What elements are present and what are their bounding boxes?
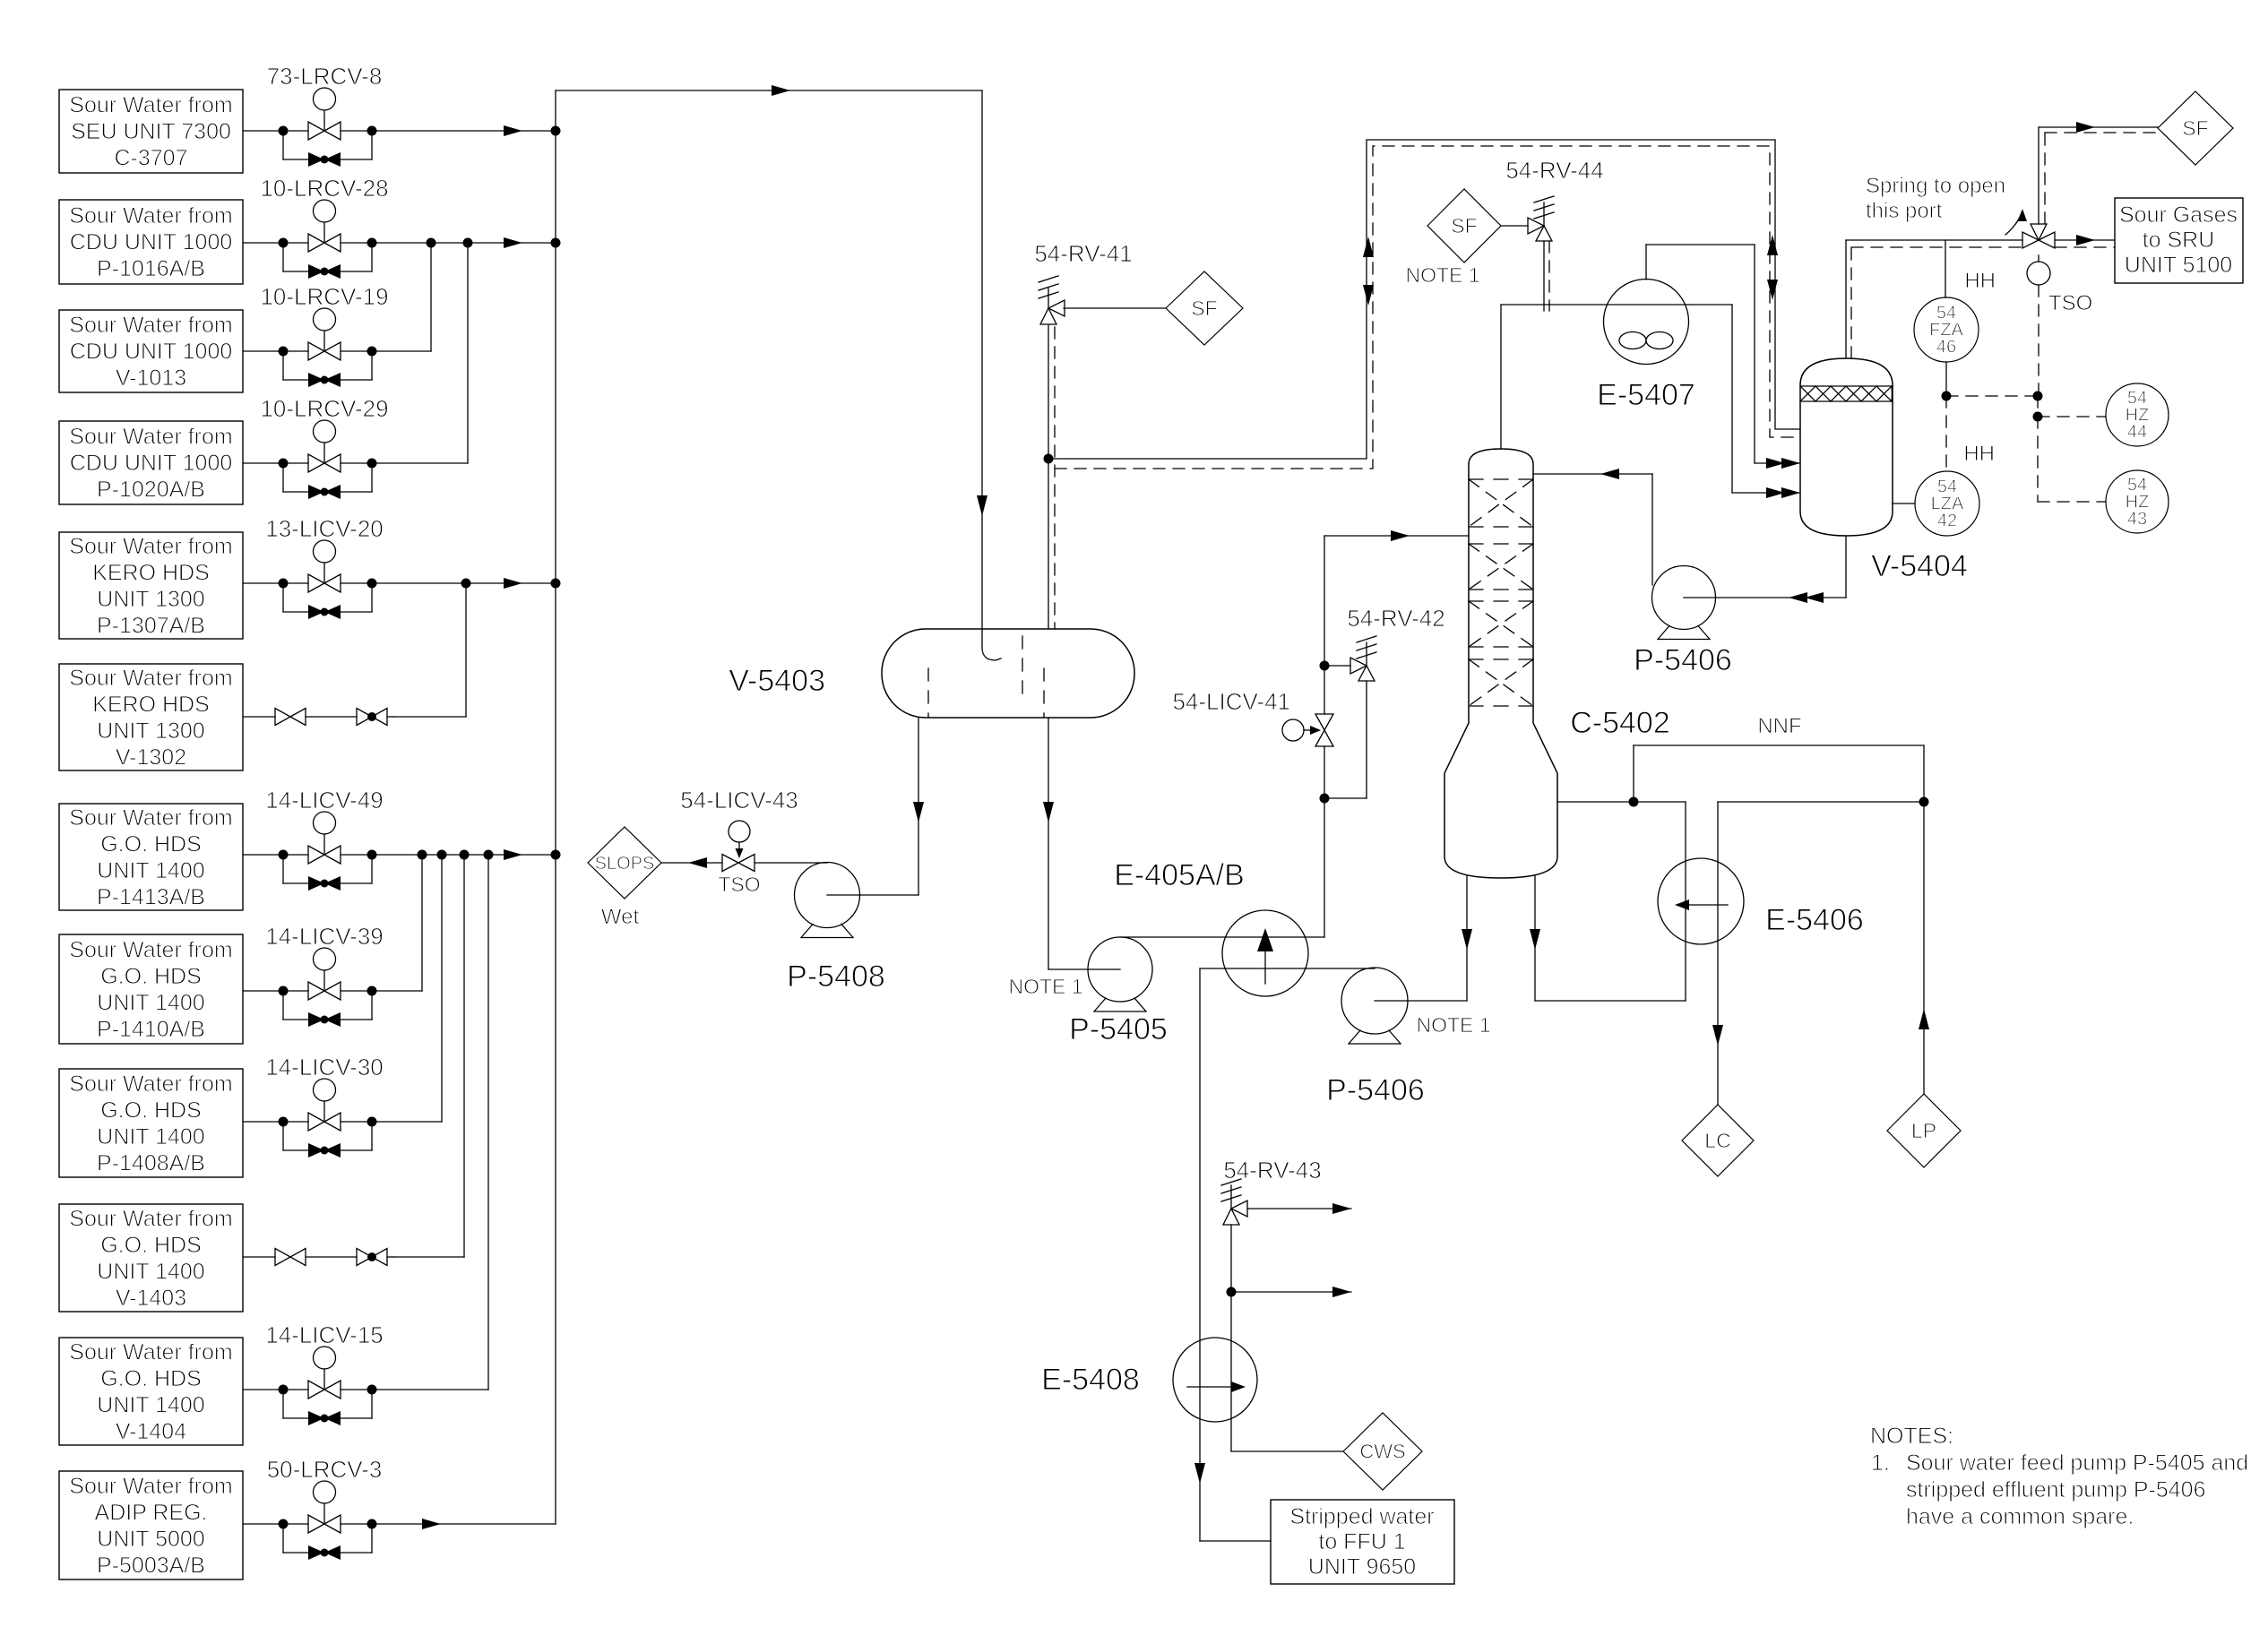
svg-text:46: 46 — [1936, 338, 1956, 357]
svg-text:CDU UNIT 1000: CDU UNIT 1000 — [70, 451, 233, 476]
RV-44 tailpipe — [1543, 241, 1545, 311]
wire row6 riser — [394, 716, 466, 718]
svg-text:KERO HDS: KERO HDS — [92, 692, 210, 717]
destination box Sour Gases to SRU — [2115, 198, 2243, 283]
block valves row V-1302 — [243, 716, 275, 718]
V-5403 left outlet to P-5408 — [918, 718, 919, 895]
svg-text:NNF: NNF — [1757, 714, 1801, 738]
svg-text:Sour Water from: Sour Water from — [69, 666, 232, 691]
instrument 54-FZA-46 with HH — [1945, 240, 1946, 297]
svg-text:Sour Water from: Sour Water from — [69, 93, 232, 118]
block valves row V-1403 — [243, 1256, 275, 1258]
svg-text:54-RV-44: 54-RV-44 — [1505, 157, 1603, 184]
svg-text:Sour Water from: Sour Water from — [69, 203, 232, 228]
SF connector at RV-41 — [1064, 307, 1166, 309]
svg-text:UNIT 5100: UNIT 5100 — [2125, 253, 2232, 278]
svg-text:P-1410A/B: P-1410A/B — [97, 1017, 205, 1042]
svg-text:P-1307A/B: P-1307A/B — [97, 613, 205, 638]
wire row9 riser — [372, 1121, 442, 1123]
E-5407 outlet to V-5404 — [1645, 245, 1647, 280]
sour gas line to SRU — [2055, 239, 2115, 241]
instrument 54-HZ-43 — [2106, 470, 2169, 533]
svg-text:50-LRCV-3: 50-LRCV-3 — [267, 1456, 383, 1483]
off-page connector LC — [1682, 1105, 1754, 1176]
svg-text:have a common spare.: have a common spare. — [1906, 1504, 2134, 1529]
svg-text:V-1013: V-1013 — [116, 366, 186, 391]
wire row8 riser — [372, 990, 422, 992]
svg-text:V-5403: V-5403 — [729, 664, 825, 698]
svg-text:SLOPS: SLOPS — [595, 854, 655, 874]
packing bed 2 — [1469, 543, 1533, 545]
svg-text:P-1408A/B: P-1408A/B — [97, 1150, 205, 1175]
packing bed 4 — [1469, 658, 1533, 660]
svg-text:V-1403: V-1403 — [116, 1286, 186, 1311]
off-page connector LP — [1887, 1094, 1961, 1167]
wire row12 to collector — [372, 1523, 556, 1525]
svg-text:P-5408: P-5408 — [787, 960, 885, 994]
svg-text:54-LICV-43: 54-LICV-43 — [680, 787, 798, 813]
svg-text:V-1404: V-1404 — [116, 1419, 186, 1444]
exchanger E-405A/B — [1222, 910, 1308, 996]
P-5408 discharge to slops — [755, 862, 827, 864]
svg-text:SF: SF — [2182, 116, 2208, 140]
wire row5 to collector — [372, 582, 556, 584]
source box P-1408A/B (G.O. HDS / UNIT 1400 / P-1408A/B) — [59, 1069, 243, 1177]
spring-to-open arc arrow — [2005, 212, 2022, 235]
feed riser to column — [1324, 746, 1325, 937]
svg-text:Sour Water from: Sour Water from — [69, 937, 232, 962]
svg-text:Sour Water from: Sour Water from — [69, 1474, 232, 1499]
C-5402 bottoms left outlet to P-5406 — [1466, 876, 1468, 1001]
svg-text:E-5406: E-5406 — [1765, 903, 1864, 937]
svg-text:UNIT 1400: UNIT 1400 — [97, 1259, 204, 1284]
svg-text:NOTES:: NOTES: — [1870, 1424, 1953, 1449]
source box V-1013 (CDU UNIT 1000 / V-1013) — [59, 310, 243, 392]
overhead vapour line C-5402 to E-5407 — [1500, 305, 1502, 449]
svg-text:UNIT 1400: UNIT 1400 — [97, 1392, 204, 1417]
svg-text:HH: HH — [1964, 269, 1996, 293]
svg-text:P-1020A/B: P-1020A/B — [97, 478, 205, 503]
RV-41 inlet from V-5403 — [1048, 325, 1049, 629]
source box V-1404 (G.O. HDS / UNIT 1400 / V-1404) — [59, 1338, 243, 1445]
svg-text:P-5003A/B: P-5003A/B — [97, 1553, 205, 1578]
svg-text:E-405A/B: E-405A/B — [1114, 858, 1245, 892]
V-5404 demister mesh band — [1800, 386, 1893, 401]
svg-text:42: 42 — [1937, 512, 1957, 531]
pump P-5406 (stripped effluent) — [1341, 968, 1408, 1034]
svg-text:14-LICV-39: 14-LICV-39 — [265, 923, 384, 950]
svg-text:Sour Water from: Sour Water from — [69, 1072, 232, 1097]
svg-text:P-1413A/B: P-1413A/B — [97, 884, 205, 909]
svg-text:LP: LP — [1911, 1119, 1936, 1142]
svg-text:Spring to open: Spring to open — [1866, 174, 2005, 198]
svg-text:C-3707: C-3707 — [115, 146, 188, 171]
svg-text:1.: 1. — [1871, 1450, 1890, 1476]
flow arrows on right relief riser — [1767, 235, 1778, 255]
reflux line to C-5402 — [1651, 474, 1653, 585]
svg-text:to FFU 1: to FFU 1 — [1318, 1529, 1405, 1554]
svg-text:V-5404: V-5404 — [1871, 549, 1968, 583]
wire row3 riser — [372, 350, 431, 352]
svg-text:43: 43 — [2127, 510, 2147, 529]
flow arrows on left relief riser — [1363, 237, 1374, 257]
V-5404 bottoms to P-5406 — [1845, 536, 1847, 598]
relief line to SF (top right) — [2038, 127, 2039, 224]
svg-text:44: 44 — [2127, 423, 2147, 443]
svg-text:10-LRCV-28: 10-LRCV-28 — [260, 175, 388, 202]
svg-text:TSO: TSO — [2048, 291, 2092, 315]
svg-text:Wet: Wet — [601, 905, 640, 929]
relief header to sour gas valve (solid) — [1048, 140, 1800, 459]
wire row7 to collector with sub-headers — [372, 854, 556, 856]
source box C-3707 (SEU UNIT 7300 / C-3707) — [59, 90, 243, 173]
svg-text:stripped effluent pump P-5406: stripped effluent pump P-5406 — [1906, 1477, 2206, 1502]
svg-text:ADIP REG.: ADIP REG. — [95, 1500, 208, 1525]
svg-text:CDU UNIT 1000: CDU UNIT 1000 — [70, 230, 233, 255]
svg-text:SEU UNIT 7300: SEU UNIT 7300 — [71, 119, 231, 144]
svg-text:Sour Water from: Sour Water from — [69, 1206, 232, 1231]
svg-text:UNIT 1300: UNIT 1300 — [97, 587, 204, 612]
svg-text:V-1302: V-1302 — [116, 745, 186, 770]
C-5402 bottoms right outlet to E-5406 — [1534, 876, 1536, 1001]
source box P-1413A/B (G.O. HDS / UNIT 1400 / P-1413A/B) — [59, 804, 243, 910]
svg-text:UNIT 1300: UNIT 1300 — [97, 719, 204, 744]
source box P-1020A/B (CDU UNIT 1000 / P-1020A/B) — [59, 421, 243, 504]
svg-text:Sour Water from: Sour Water from — [69, 534, 232, 559]
instrument 54-LZA-42 — [1915, 471, 1979, 536]
inlet dip pipe hook inside V-5403 — [982, 648, 1001, 660]
svg-text:Sour Water from: Sour Water from — [69, 805, 232, 831]
CWS riser through E-5408 — [1230, 1225, 1232, 1451]
trim cooler E-5408 — [1173, 1338, 1257, 1422]
source box P-5003A/B (ADIP REG. / UNIT 5000 / P-5003A/B) — [59, 1471, 243, 1579]
V-5403 internal level dashes — [927, 668, 929, 717]
svg-text:C-5402: C-5402 — [1570, 706, 1670, 740]
feed inlet into C-5402 — [1324, 535, 1469, 537]
wire E-5406 to LP riser — [1718, 801, 1924, 803]
svg-text:TSO: TSO — [718, 873, 760, 896]
svg-text:14-LICV-30: 14-LICV-30 — [265, 1054, 384, 1080]
SF connector at RV-44 — [1427, 189, 1501, 263]
svg-text:P-5405: P-5405 — [1069, 1012, 1168, 1046]
svg-text:UNIT 1400: UNIT 1400 — [97, 990, 204, 1015]
svg-text:UNIT 5000: UNIT 5000 — [97, 1527, 204, 1552]
signal dashed FZA down to LZA — [1945, 396, 1947, 471]
svg-text:Stripped water: Stripped water — [1289, 1504, 1434, 1529]
source box P-1410A/B (G.O. HDS / UNIT 1400 / P-1410A/B) — [59, 934, 243, 1044]
packing bed 1 — [1469, 478, 1533, 480]
svg-text:this port: this port — [1866, 199, 1943, 223]
svg-text:54-RV-42: 54-RV-42 — [1347, 605, 1444, 632]
off-page connector CWS — [1343, 1413, 1422, 1490]
svg-text:Sour water feed pump P-5405 an: Sour water feed pump P-5405 and — [1906, 1450, 2248, 1476]
stripped water line to E-5408 (from P-5406) — [1200, 968, 1375, 969]
V-5403 right outlet to P-5405 — [1048, 718, 1049, 969]
vent stub at dot — [1231, 1291, 1351, 1293]
TSO ball valve below 3-way — [2038, 255, 2039, 262]
svg-text:Sour Water from: Sour Water from — [69, 425, 232, 450]
svg-text:54-LICV-41: 54-LICV-41 — [1172, 688, 1290, 715]
signal/relief dashed line at RV-41 — [1054, 327, 1056, 629]
wire row10 riser — [394, 1256, 464, 1258]
relief header (dashed trace) — [1055, 146, 1800, 469]
svg-text:UNIT 9650: UNIT 9650 — [1308, 1554, 1416, 1579]
svg-text:CDU UNIT 1000: CDU UNIT 1000 — [70, 340, 233, 365]
svg-text:NOTE 1: NOTE 1 — [1416, 1013, 1490, 1037]
LP riser — [1923, 802, 1925, 1094]
svg-text:54-RV-41: 54-RV-41 — [1034, 240, 1132, 267]
svg-text:to SRU: to SRU — [2143, 228, 2215, 253]
svg-text:CWS: CWS — [1359, 1441, 1405, 1463]
svg-text:13-LICV-20: 13-LICV-20 — [265, 515, 384, 542]
svg-text:G.O. HDS: G.O. HDS — [100, 831, 202, 856]
svg-text:73-LRCV-8: 73-LRCV-8 — [267, 63, 383, 90]
destination box Stripped water to FFU — [1271, 1500, 1454, 1584]
feed line P-5405 to riser through E-405A/B — [1120, 936, 1324, 938]
svg-text:G.O. HDS: G.O. HDS — [100, 964, 202, 989]
svg-text:14-LICV-49: 14-LICV-49 — [265, 787, 384, 813]
svg-text:P-5406: P-5406 — [1634, 643, 1732, 677]
feed header to V-5403 — [556, 90, 982, 91]
svg-text:P-1016A/B: P-1016A/B — [97, 256, 205, 281]
svg-text:Sour Water from: Sour Water from — [69, 313, 232, 338]
off-page connector SLOPS — [588, 827, 661, 899]
wire row2 to collector with sub-headers — [372, 242, 556, 244]
pump P-5406 (reflux) — [1652, 566, 1716, 630]
wire row1 to collector — [372, 130, 556, 132]
signal dashed TSO to HZ instruments — [2038, 285, 2039, 396]
vessel V-5404 with demister — [1800, 358, 1893, 536]
svg-text:NOTE 1: NOTE 1 — [1008, 975, 1082, 998]
svg-text:UNIT 1400: UNIT 1400 — [97, 1124, 204, 1149]
svg-text:KERO HDS: KERO HDS — [92, 560, 210, 585]
source box P-1307A/B (KERO HDS / UNIT 1300 / P-1307A/B) — [59, 532, 243, 639]
exchanger E-5406 — [1658, 858, 1744, 944]
source box V-1403 (G.O. HDS / UNIT 1400 / V-1403) — [59, 1204, 243, 1312]
pump P-5405 (sour water feed) — [1088, 937, 1152, 1002]
svg-text:HH: HH — [1963, 442, 1995, 466]
svg-text:10-LRCV-19: 10-LRCV-19 — [260, 283, 388, 310]
svg-text:Sour Water from: Sour Water from — [69, 1339, 232, 1364]
vessel V-5403 (horizontal drum) — [882, 629, 1134, 718]
source box P-1016A/B (CDU UNIT 1000 / P-1016A/B) — [59, 200, 243, 284]
svg-text:SF: SF — [1451, 214, 1477, 237]
NNF line — [1633, 745, 1634, 802]
svg-text:G.O. HDS: G.O. HDS — [100, 1366, 202, 1391]
C-5402 side nozzle line — [1557, 801, 1686, 803]
wire to SLOPS — [661, 862, 722, 864]
wire row4 riser — [372, 462, 468, 464]
svg-text:14-LICV-15: 14-LICV-15 — [265, 1321, 384, 1348]
svg-text:P-5406: P-5406 — [1326, 1073, 1425, 1107]
CWS supply line — [1231, 1450, 1343, 1452]
svg-text:E-5408: E-5408 — [1041, 1363, 1140, 1397]
svg-text:Sour Gases: Sour Gases — [2119, 202, 2238, 228]
pump P-5408 — [795, 863, 860, 928]
instrument 54-HZ-44 — [2106, 383, 2169, 446]
svg-text:SF: SF — [1191, 297, 1217, 320]
signal dashed FZA to TSO riser — [1946, 395, 2038, 397]
svg-text:UNIT 1400: UNIT 1400 — [97, 858, 204, 883]
off-page connector SF top right — [2158, 91, 2233, 165]
packing bed 3 — [1469, 600, 1533, 602]
V-5404 overhead to 3-way valve — [1845, 240, 1847, 358]
column C-5402 shell — [1444, 449, 1557, 878]
air cooler E-5407 — [1604, 280, 1689, 365]
svg-text:NOTE 1: NOTE 1 — [1405, 263, 1479, 287]
source box V-1302 (KERO HDS / UNIT 1300 / V-1302) — [59, 664, 243, 770]
svg-text:10-LRCV-29: 10-LRCV-29 — [260, 395, 388, 422]
svg-text:LC: LC — [1704, 1129, 1730, 1152]
svg-text:E-5407: E-5407 — [1597, 378, 1695, 412]
3-way valve (sour gases) — [2022, 232, 2039, 248]
collector header (vertical) — [555, 90, 556, 1524]
svg-text:G.O. HDS: G.O. HDS — [100, 1097, 202, 1123]
E-5406 shell lines — [1685, 802, 1686, 1001]
wire row11 riser — [372, 1389, 488, 1390]
svg-text:G.O. HDS: G.O. HDS — [100, 1233, 202, 1258]
